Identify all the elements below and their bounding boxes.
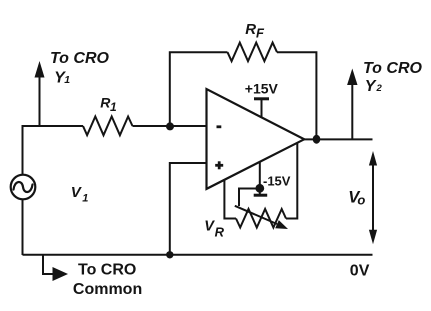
- svg-text:1: 1: [110, 100, 117, 114]
- label To CRO Y1: [50, 50, 110, 87]
- label R1: [100, 94, 117, 114]
- +15V supply terminal: [254, 99, 269, 118]
- wire: pot right leg to output side: [286, 143, 297, 219]
- op-amp minus pin mark: [217, 125, 222, 128]
- wire: left vertical from source to bottom wire: [22, 199, 24, 255]
- output node dot: [313, 135, 321, 144]
- wire: main input wire left segment: [23, 125, 84, 127]
- wire: feedback riser from node A: [170, 52, 228, 126]
- label To CRO Common: [73, 261, 142, 298]
- svg-text:To CRO: To CRO: [78, 261, 136, 278]
- wire: non-inverting input stub and down branch: [170, 163, 207, 255]
- wire: output wire: [304, 138, 373, 140]
- wire: offset pot left leg: [224, 179, 236, 219]
- svg-text:1: 1: [64, 74, 70, 86]
- op-amp plus pin mark: [215, 161, 223, 169]
- svg-text:+15V: +15V: [245, 81, 279, 97]
- resistor RF: [228, 43, 278, 62]
- measurement arrow Vo (double headed): [369, 151, 377, 244]
- node B junction dot (bottom wire / non-inverting branch): [166, 251, 173, 258]
- svg-text:To CRO: To CRO: [363, 60, 423, 77]
- potentiometer wiper wire from -15V node: [239, 189, 260, 207]
- svg-text:o: o: [357, 192, 365, 207]
- svg-text:F: F: [256, 26, 265, 41]
- potentiometer VR zigzag: [236, 209, 286, 228]
- label VR: [204, 218, 224, 239]
- svg-text:2: 2: [376, 83, 383, 94]
- svg-text:-15V: -15V: [263, 173, 291, 188]
- wire: R1 to inverting input: [133, 125, 208, 127]
- svg-text:1: 1: [82, 192, 88, 204]
- svg-text:R: R: [215, 224, 225, 239]
- svg-text:0V: 0V: [350, 262, 370, 279]
- node A junction dot (inverting input node): [166, 122, 174, 130]
- svg-text:Common: Common: [73, 281, 142, 298]
- label RF: [245, 21, 265, 41]
- arrow to CRO common: [43, 255, 68, 281]
- label V1: [71, 184, 89, 204]
- arrow to CRO Y2: [347, 69, 357, 140]
- wire: RF to output node: [277, 52, 316, 139]
- voltage source V1 (sine generator): [11, 175, 36, 200]
- label Vo: [348, 188, 365, 207]
- wire: bottom common wire: [23, 254, 373, 256]
- node C junction dot (-15V / wiper): [255, 184, 264, 193]
- label -15V: [263, 173, 291, 188]
- label 0V: [350, 262, 370, 279]
- svg-text:R: R: [245, 21, 256, 38]
- op-amp U1: [207, 89, 305, 189]
- svg-text:To CRO: To CRO: [50, 50, 110, 67]
- label +15V: [245, 81, 279, 97]
- arrow to CRO Y1: [35, 61, 45, 126]
- resistor R1: [83, 117, 133, 136]
- wire: left vertical from top corner to source: [22, 125, 24, 175]
- label To CRO Y2: [363, 60, 423, 95]
- potentiometer wiper arrow: [235, 206, 288, 229]
- svg-text:Y: Y: [365, 78, 377, 95]
- -15V supply terminal: [254, 162, 268, 196]
